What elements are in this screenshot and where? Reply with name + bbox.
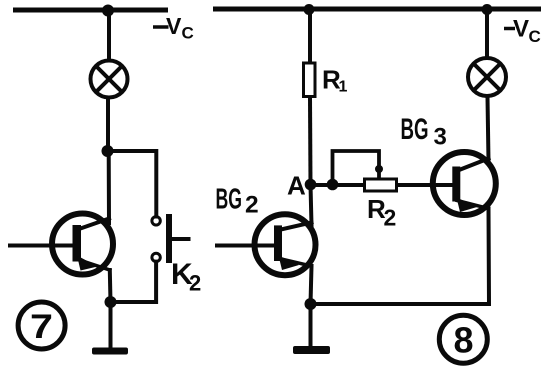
wire BG2 base lead (217, 244, 275, 248)
wire node A to R2 (311, 183, 364, 187)
figure number 7 (18, 302, 65, 349)
node junction dot below lamp (fig 7) (102, 145, 114, 157)
svg-text:BG: BG (401, 113, 429, 146)
wire node A to BG2 collector (311, 185, 312, 225)
transistor VT (fig 7) (52, 214, 113, 275)
svg-text:2: 2 (384, 205, 397, 231)
lamp HL (fig 8) (468, 58, 506, 96)
label R1 (322, 64, 348, 95)
wire BG3 emitter down and across (311, 209, 490, 305)
power rail -Vc (figure 8) (213, 7, 541, 12)
wire switch to bottom node (fig 7) (111, 262, 157, 302)
svg-text:3: 3 (434, 124, 447, 151)
svg-text:1: 1 (339, 79, 348, 96)
svg-text:2: 2 (189, 271, 201, 296)
svg-text:V: V (513, 16, 529, 43)
wire rail to R1 (308, 9, 312, 62)
wire lamp to collector node (fig 7) (106, 98, 110, 151)
label R2 (367, 194, 396, 231)
switch K2 (152, 217, 189, 262)
power rail -Vc (figure 7) (13, 8, 168, 13)
wire R2 to BG3 base (398, 183, 453, 187)
label BG2 (216, 184, 259, 219)
svg-text:BG: BG (216, 184, 243, 216)
svg-text:2: 2 (245, 192, 259, 219)
figure number 8 (439, 315, 487, 363)
node A dot (305, 179, 317, 191)
svg-text:C: C (182, 24, 194, 43)
label BG3 (401, 113, 447, 151)
lamp HL (fig 7) (91, 61, 128, 98)
junction dot bottom (fig 8) (305, 298, 317, 310)
label K2 (171, 258, 201, 296)
label -Vc (fig 8) (504, 16, 541, 46)
junction on rail at R1 branch (304, 4, 315, 15)
junction dot bottom (fig 7) (105, 296, 117, 308)
transistor BG2 (255, 214, 316, 275)
junction on rail at lamp branch (482, 4, 493, 15)
wire to ground (fig 7) (109, 302, 113, 348)
wire collector (fig 7) (107, 151, 111, 223)
svg-text:8: 8 (454, 320, 474, 361)
wire junction to switch branch (108, 151, 157, 217)
resistor R1 (304, 63, 316, 97)
ground (fig 8) (293, 346, 330, 354)
wire BG2 emitter down (311, 266, 312, 304)
resistor R2 (365, 179, 397, 191)
wire to ground (fig 8) (309, 304, 313, 347)
ground (fig 7) (92, 348, 128, 355)
junction dot on A-R2 wire (327, 179, 339, 191)
wire R2 wiper feedback loop (333, 151, 380, 185)
svg-text:7: 7 (30, 308, 53, 346)
wire lamp to BG3 collector (488, 98, 489, 162)
wire R1 to node A (308, 98, 313, 185)
svg-text:C: C (529, 27, 541, 46)
label -Vc (fig 7) (153, 13, 194, 43)
transistor BG3 (433, 152, 496, 215)
wire rail to lamp (fig 7) (107, 10, 111, 60)
wire rail to lamp (fig 8) (485, 9, 489, 57)
svg-text:A: A (287, 171, 306, 201)
wire base lead (fig 7) (10, 244, 73, 248)
wiper tap dot on R2 (375, 165, 383, 173)
wire emitter (fig 7) (108, 270, 113, 302)
junction on rail (fig 7) (102, 5, 114, 17)
svg-text:V: V (166, 13, 182, 39)
